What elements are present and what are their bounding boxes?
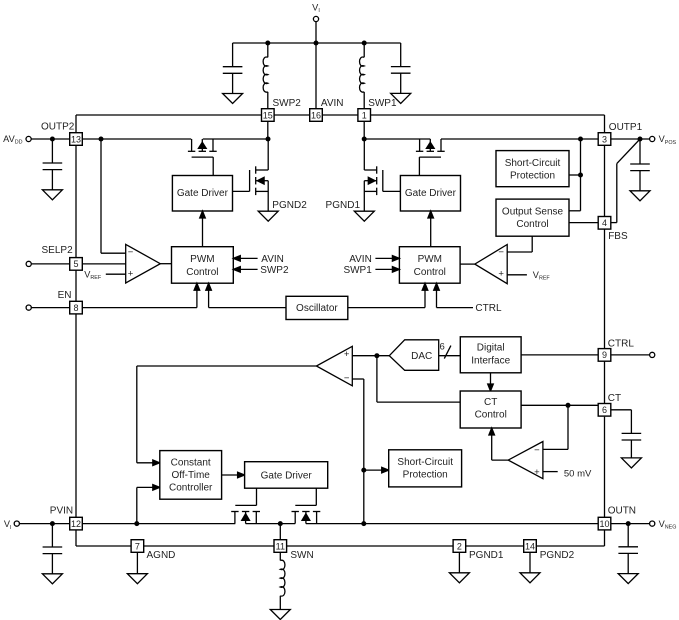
- svg-text:7: 7: [135, 541, 140, 551]
- svg-text:PWM: PWM: [190, 254, 214, 265]
- svg-text:+: +: [498, 269, 504, 280]
- svg-text:Oscillator: Oscillator: [296, 303, 338, 314]
- svg-text:CT: CT: [608, 393, 621, 404]
- svg-text:EN: EN: [58, 290, 72, 301]
- svg-text:OUTP2: OUTP2: [41, 121, 75, 132]
- svg-text:16: 16: [311, 110, 321, 120]
- svg-text:15: 15: [263, 110, 273, 120]
- svg-text:+: +: [344, 349, 350, 360]
- svg-text:12: 12: [71, 519, 81, 529]
- svg-text:9: 9: [602, 350, 607, 360]
- svg-text:+: +: [128, 269, 134, 280]
- svg-text:AVIN: AVIN: [321, 98, 344, 109]
- svg-text:13: 13: [71, 134, 81, 144]
- svg-text:3: 3: [602, 134, 607, 144]
- svg-text:2: 2: [457, 541, 462, 551]
- svg-text:Interface: Interface: [471, 355, 510, 366]
- svg-text:PGND2: PGND2: [540, 550, 575, 561]
- svg-text:SWP2: SWP2: [260, 265, 289, 276]
- svg-text:Short-Circuit: Short-Circuit: [397, 457, 453, 468]
- svg-text:SWN: SWN: [290, 550, 313, 561]
- svg-text:PGND1: PGND1: [326, 200, 361, 211]
- svg-text:Protection: Protection: [403, 470, 448, 481]
- svg-text:6: 6: [602, 405, 607, 415]
- svg-text:FBS: FBS: [608, 231, 628, 242]
- svg-text:Gate Driver: Gate Driver: [177, 188, 229, 199]
- svg-text:−: −: [344, 373, 350, 384]
- svg-text:−: −: [128, 247, 134, 258]
- svg-text:Short-Circuit: Short-Circuit: [505, 158, 561, 169]
- svg-text:Controller: Controller: [169, 483, 213, 494]
- svg-text:AGND: AGND: [147, 550, 176, 561]
- svg-text:50 mV: 50 mV: [564, 468, 592, 479]
- svg-text:Control: Control: [475, 410, 507, 421]
- svg-text:CTRL: CTRL: [475, 303, 502, 314]
- svg-text:SWP1: SWP1: [343, 265, 372, 276]
- svg-text:5: 5: [73, 259, 78, 269]
- svg-text:PVIN: PVIN: [50, 505, 73, 516]
- svg-text:CT: CT: [484, 397, 497, 408]
- svg-text:Control: Control: [414, 267, 446, 278]
- svg-text:Protection: Protection: [510, 170, 555, 181]
- svg-text:Output Sense: Output Sense: [502, 206, 564, 217]
- svg-text:8: 8: [73, 303, 78, 313]
- svg-text:PGND1: PGND1: [469, 550, 504, 561]
- svg-text:Gate Driver: Gate Driver: [405, 188, 457, 199]
- svg-text:PWM: PWM: [418, 254, 442, 265]
- svg-text:CTRL: CTRL: [608, 339, 635, 350]
- svg-text:AVIN: AVIN: [261, 254, 284, 265]
- svg-text:SELP2: SELP2: [42, 245, 74, 256]
- svg-text:4: 4: [602, 218, 607, 228]
- svg-text:10: 10: [599, 519, 609, 529]
- svg-text:−: −: [534, 445, 540, 456]
- svg-text:DAC: DAC: [411, 351, 432, 362]
- svg-text:14: 14: [525, 541, 535, 551]
- svg-text:6: 6: [440, 342, 445, 353]
- svg-text:AVIN: AVIN: [349, 254, 372, 265]
- svg-text:Control: Control: [186, 267, 218, 278]
- svg-text:+: +: [534, 467, 540, 478]
- svg-text:Gate Driver: Gate Driver: [261, 470, 313, 481]
- svg-text:Off-Time: Off-Time: [172, 470, 211, 481]
- svg-text:11: 11: [276, 541, 285, 551]
- svg-text:Constant: Constant: [171, 458, 211, 469]
- svg-text:OUTP1: OUTP1: [609, 122, 643, 133]
- svg-text:−: −: [498, 247, 504, 258]
- svg-text:OUTN: OUTN: [608, 505, 636, 516]
- svg-text:SWP1: SWP1: [368, 98, 397, 109]
- svg-text:SWP2: SWP2: [273, 98, 302, 109]
- svg-text:1: 1: [362, 110, 367, 120]
- svg-text:Digital: Digital: [477, 343, 505, 354]
- svg-text:Control: Control: [516, 219, 548, 230]
- svg-text:PGND2: PGND2: [272, 200, 307, 211]
